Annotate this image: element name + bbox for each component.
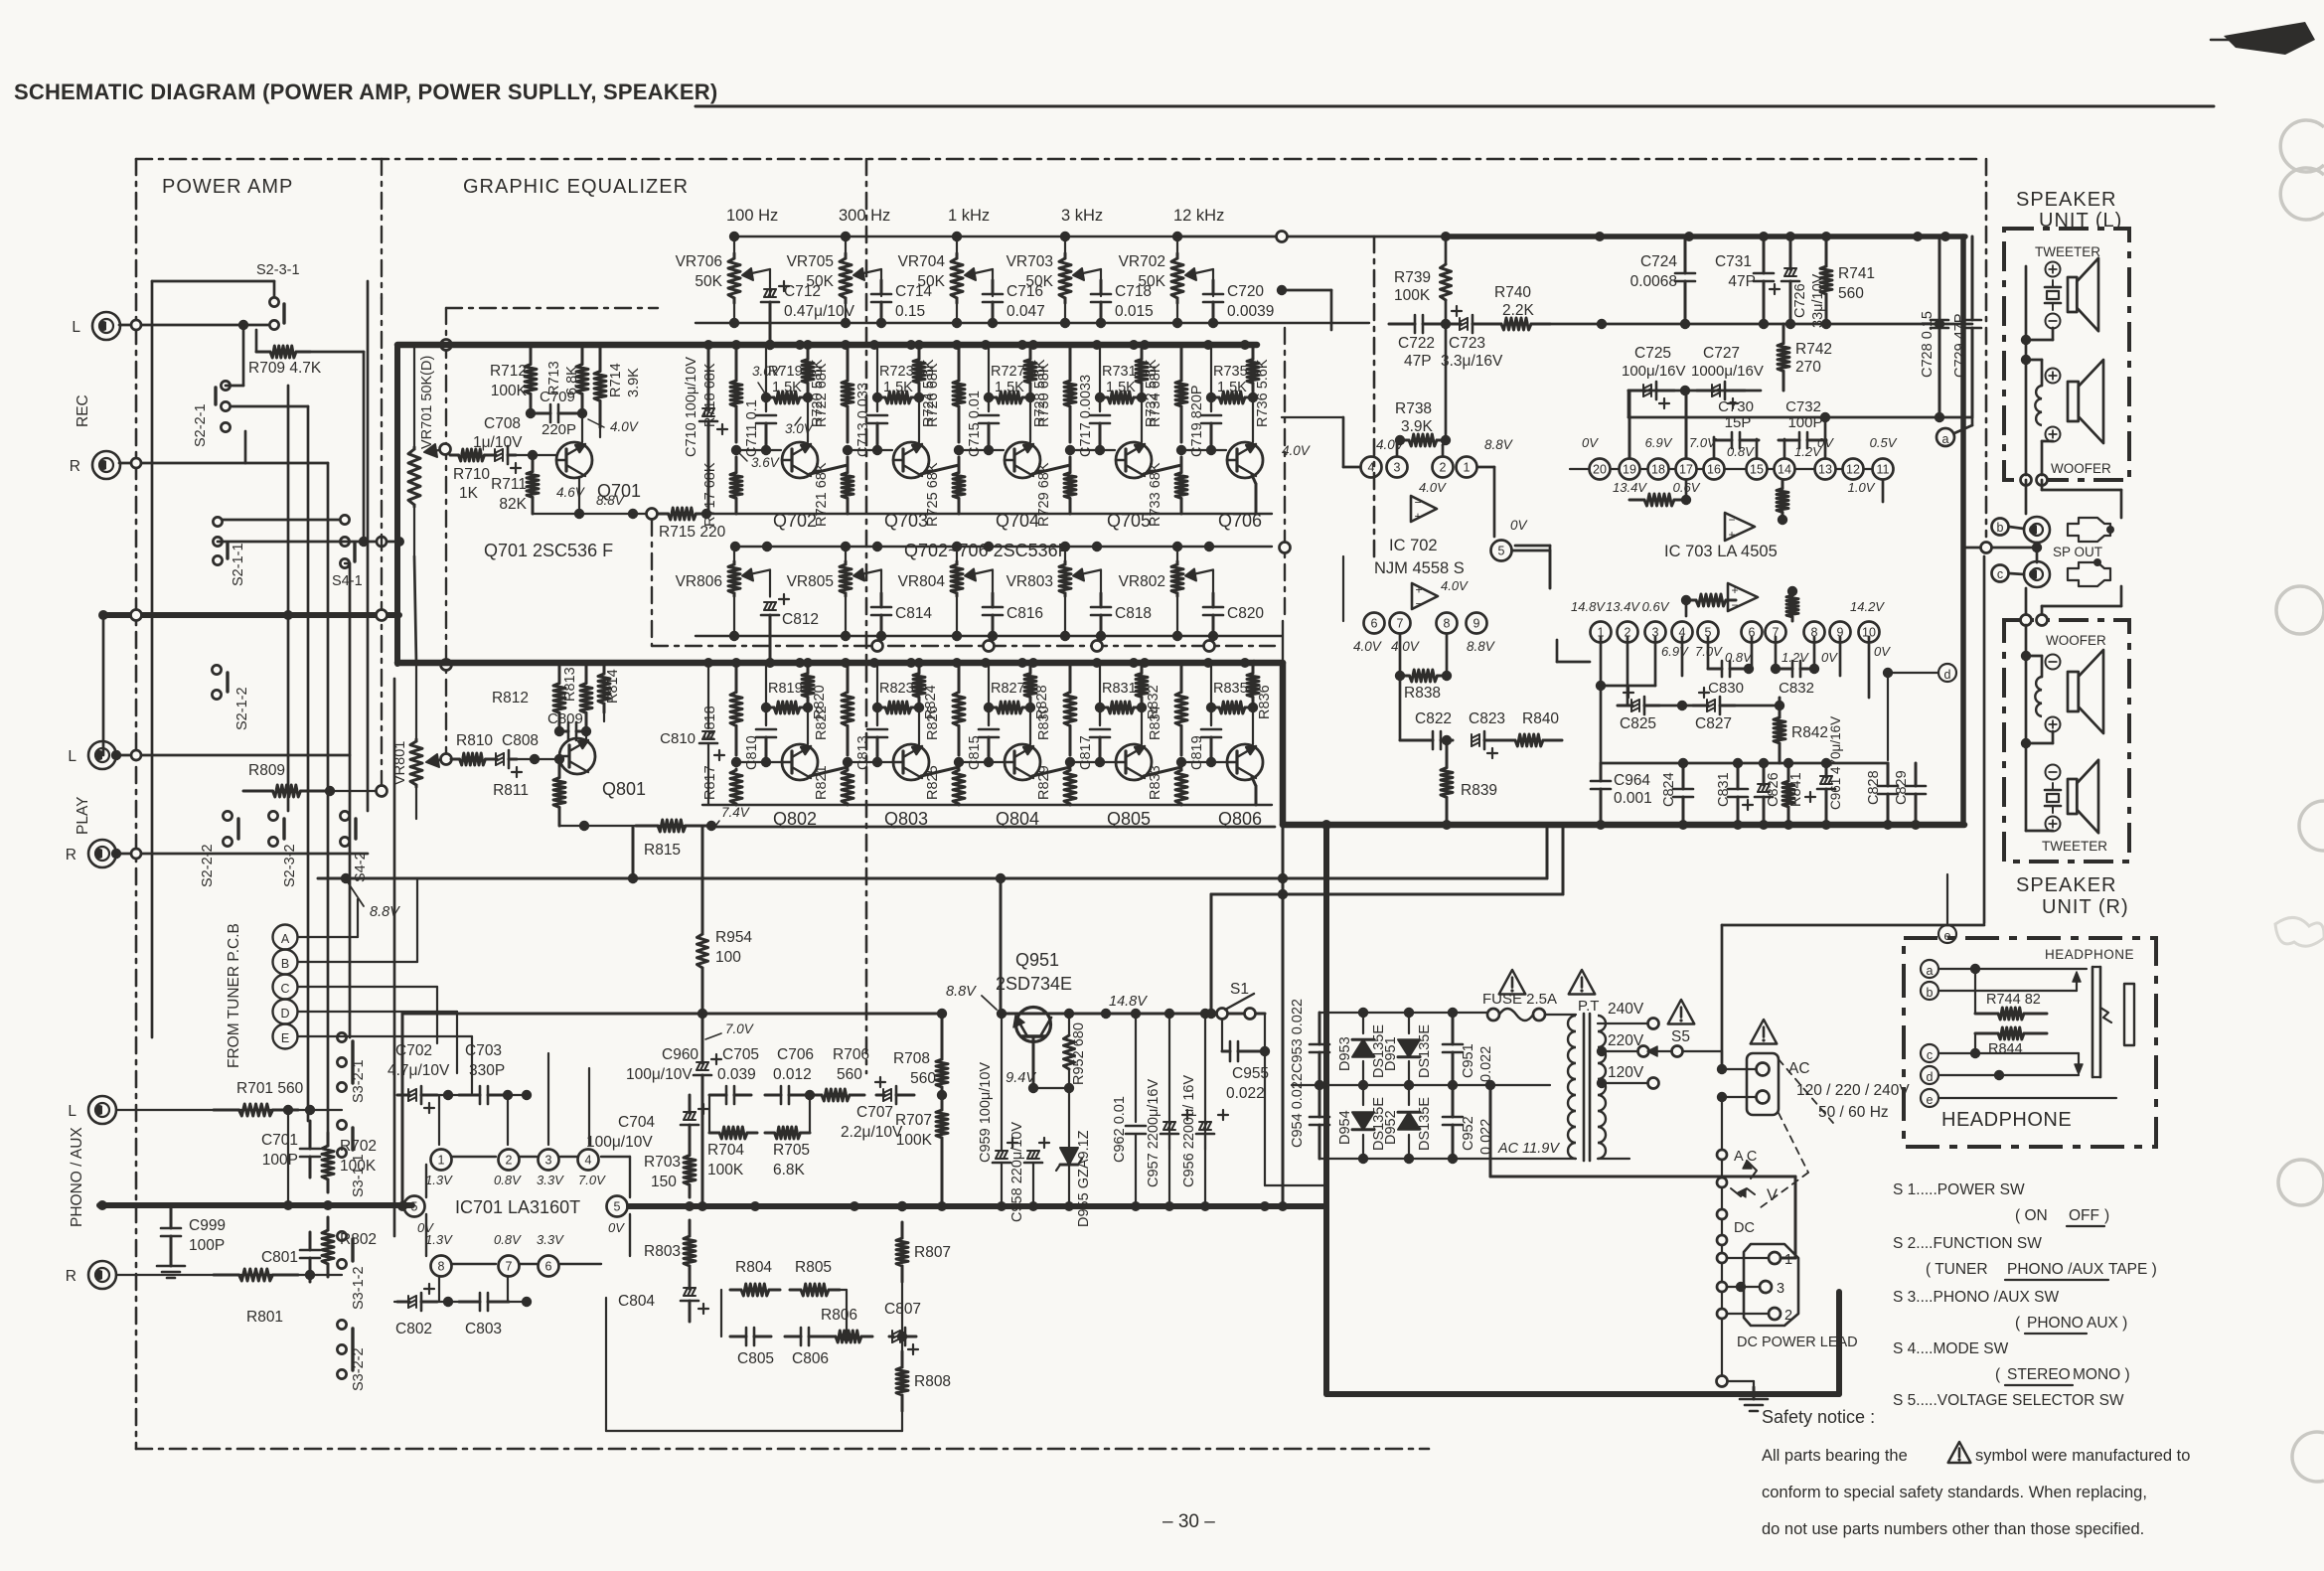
svg-text:R705: R705 xyxy=(773,1142,810,1159)
IC701 body wires xyxy=(426,1157,630,1264)
label PHONO/AUX xyxy=(69,1127,85,1227)
wire Q801 collector xyxy=(585,731,587,740)
wire C702 C703 node xyxy=(437,1090,459,1145)
label S1 list xyxy=(1893,1181,2025,1198)
switch S2-3-2 xyxy=(268,811,298,887)
wire cap node xyxy=(988,397,990,411)
node base Q805 xyxy=(1065,757,1075,767)
svg-text:7: 7 xyxy=(506,1260,513,1274)
svg-text:1.5K: 1.5K xyxy=(772,380,802,395)
svg-text:C817: C817 xyxy=(1078,735,1094,770)
svg-text:R825: R825 xyxy=(925,765,941,800)
capacitor C958 xyxy=(1009,1122,1049,1222)
wire 1290 c xyxy=(1282,621,1284,663)
wire plug b loop xyxy=(2042,480,2121,518)
svg-text:0.022: 0.022 xyxy=(1478,1119,1494,1155)
svg-text:2SD734E: 2SD734E xyxy=(996,974,1072,994)
diode D953 xyxy=(1337,1013,1387,1085)
node d xyxy=(1883,664,1956,760)
wire pin8 down xyxy=(1446,634,1449,676)
capacitor C816 xyxy=(983,593,1043,641)
potentiometer VR804 xyxy=(898,547,993,636)
svg-text:2.2K: 2.2K xyxy=(1502,302,1535,319)
wire s5 out xyxy=(1683,1051,1722,1069)
wire thick up right xyxy=(0,0,1,1)
wire pin8 down IC703 xyxy=(1813,637,1816,669)
speaker R box xyxy=(2004,620,2129,862)
wire mesh v1 xyxy=(0,0,1,1)
IC702 pin 2 xyxy=(1433,457,1454,478)
svg-text:Q802: Q802 xyxy=(773,809,817,829)
wire base Q704 xyxy=(959,445,1004,455)
resistor R815 xyxy=(636,820,707,859)
capacitor C829 xyxy=(1894,763,1926,825)
svg-text:(: ( xyxy=(2015,1315,2021,1332)
wire pin5 ic702 right xyxy=(1515,546,1550,588)
op-amp U702b xyxy=(1412,583,1438,611)
svg-text:C707: C707 xyxy=(856,1104,893,1121)
op-amp U703b xyxy=(1728,583,1758,612)
svg-text:b: b xyxy=(1927,986,1934,1000)
svg-text:R810: R810 xyxy=(456,732,493,749)
wire pin1 right xyxy=(1477,467,1494,537)
wire R814 out xyxy=(603,712,605,721)
svg-text:C722: C722 xyxy=(1398,335,1435,352)
wire fuse to pt xyxy=(1545,1014,1576,1016)
svg-text:14.8V: 14.8V xyxy=(1109,994,1148,1010)
svg-text:5: 5 xyxy=(411,1200,418,1214)
svg-text:4.0V: 4.0V xyxy=(1441,578,1469,593)
svg-text:R714: R714 xyxy=(608,363,624,397)
svg-text:300 Hz: 300 Hz xyxy=(839,207,890,225)
svg-text:C809: C809 xyxy=(547,710,583,727)
label 4.0V amp2 xyxy=(1441,578,1469,593)
warn ac xyxy=(1751,1020,1778,1044)
punch hole 6 xyxy=(2292,1432,2324,1482)
punch hole 4 xyxy=(2299,801,2324,851)
wire base Q706 xyxy=(1181,445,1226,455)
thick bus PLAY xyxy=(98,610,399,621)
jack L REC xyxy=(72,312,120,340)
capacitor C716 xyxy=(983,280,1045,328)
zener D955 xyxy=(1056,1088,1092,1227)
wire ic702 output right xyxy=(0,0,1,1)
wire mesh 908 xyxy=(1206,828,1563,1019)
svg-text:R704: R704 xyxy=(707,1142,744,1159)
svg-text:REC: REC xyxy=(75,394,91,427)
svg-text:C805: C805 xyxy=(737,1350,774,1367)
resistor R826 lower divider upper xyxy=(925,663,965,755)
wire REC L vertical xyxy=(242,325,245,386)
wire x330 vertical xyxy=(245,463,328,1133)
capacitor C964 xyxy=(1591,763,1652,825)
svg-text:R727: R727 xyxy=(991,364,1025,380)
hp jack sleeve xyxy=(2124,984,2134,1045)
svg-text:C704: C704 xyxy=(618,1114,655,1131)
svg-text:47P: 47P xyxy=(1404,353,1432,370)
wire cap node xyxy=(876,397,878,411)
resistor R818 lower divider upper xyxy=(702,663,742,755)
svg-text:240V: 240V xyxy=(1608,1001,1644,1018)
node b xyxy=(1992,519,2009,536)
node b hp xyxy=(1921,982,1938,1000)
wire R714 out xyxy=(599,427,601,437)
headphone box xyxy=(1904,938,2156,1147)
capacitor C827 xyxy=(1693,688,1735,732)
resistor R825 lower divider lower xyxy=(925,765,965,805)
capacitor C722 xyxy=(1389,315,1441,370)
wire ic702 eq link xyxy=(1277,285,1331,330)
label TWEETER R xyxy=(2042,839,2107,854)
svg-text:R708: R708 xyxy=(893,1050,930,1067)
svg-text:R701 560: R701 560 xyxy=(236,1080,304,1097)
speaker L terminals xyxy=(2021,475,2048,486)
capacitor C818 xyxy=(1091,593,1152,641)
label IC702 xyxy=(1389,537,1438,554)
IC703 pin 14 xyxy=(1775,459,1795,480)
tweeter L speaker xyxy=(2068,258,2098,331)
plug dash 2 xyxy=(1757,1113,1808,1210)
wire long mid link xyxy=(0,0,1,1)
node base Q803 xyxy=(843,757,852,767)
resistor R733 divider lower xyxy=(1148,457,1187,527)
svg-text:S 5.....VOLTAGE SELECTOR SW: S 5.....VOLTAGE SELECTOR SW xyxy=(1893,1392,2124,1409)
resistor R720 xyxy=(802,345,826,427)
node c hp xyxy=(1921,1044,1938,1062)
svg-text:GRAPHIC EQUALIZER: GRAPHIC EQUALIZER xyxy=(463,176,689,198)
transistor Q705 xyxy=(1107,442,1152,531)
diode D954 xyxy=(1337,1085,1387,1159)
resistor R812 xyxy=(492,665,565,736)
label 4.0V pin3 xyxy=(1376,437,1406,452)
resistor R811 xyxy=(493,754,565,826)
terminal E xyxy=(273,1024,298,1049)
resistor R729 divider lower xyxy=(1036,457,1076,527)
woofer R minus xyxy=(2046,655,2061,670)
transistor Q702 xyxy=(773,442,818,531)
resistor R704 xyxy=(707,1127,757,1178)
svg-text:C708: C708 xyxy=(484,415,521,432)
svg-text:b: b xyxy=(1997,521,2004,535)
svg-text:P.T: P.T xyxy=(1578,998,1599,1015)
svg-text:S3-1-2: S3-1-2 xyxy=(351,1266,367,1310)
svg-text:VR706: VR706 xyxy=(676,253,722,270)
svg-text:C953 0.022: C953 0.022 xyxy=(1290,999,1306,1073)
resistor R718 divider upper xyxy=(702,345,742,442)
EQ bottom rail 2 xyxy=(730,542,1272,551)
resistor R726 divider upper xyxy=(925,345,965,442)
svg-text:7.0V: 7.0V xyxy=(725,1021,755,1036)
wire ic702 pin9 net xyxy=(1557,640,1590,662)
svg-text:R706: R706 xyxy=(833,1046,869,1063)
svg-text:IC 703 LA 4505: IC 703 LA 4505 xyxy=(1664,543,1778,560)
wire lower loop xyxy=(721,1290,852,1341)
svg-text:R726 68K: R726 68K xyxy=(925,363,941,427)
resistor R841 xyxy=(1782,763,1804,825)
svg-text:R829: R829 xyxy=(1036,765,1052,800)
svg-text:2: 2 xyxy=(1440,461,1447,475)
wire C808 base xyxy=(517,754,559,764)
svg-text:conform to special safety: conform to special safety standards. Whe… xyxy=(1762,1484,2147,1501)
svg-text:C806: C806 xyxy=(792,1350,829,1367)
svg-text:18: 18 xyxy=(1651,463,1665,477)
EQ lower top rail xyxy=(0,0,1,1)
svg-text:C802: C802 xyxy=(395,1321,432,1337)
label FROM TUNER P.C.B xyxy=(226,923,242,1068)
capacitor C714 xyxy=(871,280,932,328)
op-amp U703a xyxy=(1725,513,1755,542)
svg-text:0.012: 0.012 xyxy=(773,1066,812,1083)
node d hp xyxy=(1921,1066,1938,1084)
wire x460 tuner D vert xyxy=(456,1012,458,1073)
svg-text:VR701 50K(D): VR701 50K(D) xyxy=(419,356,435,449)
svg-text:C962 0.01: C962 0.01 xyxy=(1112,1096,1128,1163)
IC702 pin 1 xyxy=(1457,457,1477,478)
jack L PHONO xyxy=(68,1096,116,1124)
capacitor C724 xyxy=(1630,236,1695,324)
svg-text:R819: R819 xyxy=(768,681,803,697)
headphone feed wire xyxy=(1722,556,1984,1069)
svg-text:R952 680: R952 680 xyxy=(1071,1022,1087,1085)
svg-text:100 Hz: 100 Hz xyxy=(726,207,778,225)
IC703 pin 20 xyxy=(1590,459,1611,480)
svg-text:R: R xyxy=(66,847,77,864)
svg-text:C803: C803 xyxy=(465,1321,502,1337)
resistor R813 xyxy=(562,665,592,736)
svg-text:50K: 50K xyxy=(806,273,834,290)
wire gnd drop xyxy=(1717,1376,1755,1388)
svg-text:560: 560 xyxy=(837,1066,862,1083)
wire emitter link Q706 xyxy=(1252,475,1256,514)
wire IC702 x1455 down xyxy=(1441,324,1451,445)
resistor R740 xyxy=(1482,284,1550,330)
tap 120V xyxy=(1597,1078,1659,1089)
wire mesh v2 xyxy=(1278,663,1288,1211)
wire mesh 962 xyxy=(0,0,1,1)
resistor R721 divider lower xyxy=(814,457,853,527)
label S3 list xyxy=(1893,1289,2059,1306)
IC703 pin 17 xyxy=(1676,459,1697,480)
wire base Q805 xyxy=(1070,757,1115,767)
svg-text:50K: 50K xyxy=(917,273,945,290)
svg-text:C710 100μ/10V: C710 100μ/10V xyxy=(684,357,699,457)
capacitor C708 xyxy=(473,415,523,473)
wire pin4 left xyxy=(1343,417,1360,467)
wire ac return xyxy=(1485,1080,1795,1258)
svg-text:R739: R739 xyxy=(1394,269,1431,286)
dashdot select line x449 xyxy=(441,308,452,765)
svg-text:TWEETER: TWEETER xyxy=(2035,244,2100,259)
pot VR801 xyxy=(392,556,422,819)
svg-text:50K: 50K xyxy=(1025,273,1053,290)
warn s5 xyxy=(1668,1000,1695,1024)
svg-text:( TUNER: ( TUNER xyxy=(1926,1261,1988,1278)
label V arrow xyxy=(1717,1178,1778,1204)
resistor R952 xyxy=(1064,1014,1088,1088)
svg-text:DS135E: DS135E xyxy=(1417,1097,1433,1151)
svg-text:C951: C951 xyxy=(1461,1043,1476,1078)
woofer L plus xyxy=(2046,369,2061,384)
capacitor C804 xyxy=(618,1282,708,1322)
svg-text:C823: C823 xyxy=(1469,710,1505,727)
wire cap node xyxy=(1210,397,1212,411)
svg-text:R803: R803 xyxy=(644,1243,681,1260)
wire C815 link xyxy=(988,707,990,725)
wire R844 tail xyxy=(0,0,1,1)
wire tuner E xyxy=(298,1035,472,1037)
capacitor C809 xyxy=(547,710,586,740)
wire R839 bottom xyxy=(1446,823,1449,825)
capacitor C831 xyxy=(1716,763,1748,825)
crossover cap R xyxy=(2045,783,2061,813)
label 3.6V xyxy=(739,453,781,470)
resistor R711 xyxy=(491,455,539,514)
svg-text:3.3μ/16V: 3.3μ/16V xyxy=(1441,353,1503,370)
svg-text:R838: R838 xyxy=(1404,685,1441,702)
svg-text:8.8V: 8.8V xyxy=(1467,639,1496,654)
svg-text:C815: C815 xyxy=(967,735,983,770)
label HEADPHONE top xyxy=(2045,947,2134,962)
wire ic702 to eq lower xyxy=(1342,556,1344,621)
wire b link xyxy=(2009,527,2024,529)
woofer L minus xyxy=(2046,427,2061,442)
svg-text:C810: C810 xyxy=(660,730,696,747)
svg-text:3.9K: 3.9K xyxy=(1401,418,1434,435)
main frame right xyxy=(1985,159,1988,537)
wire R707 down xyxy=(941,1153,944,1206)
svg-text:100P: 100P xyxy=(262,1152,298,1169)
wire R807 C807 node xyxy=(897,1282,907,1351)
svg-text:c: c xyxy=(1927,1048,1933,1062)
svg-text:DS135E: DS135E xyxy=(1417,1024,1433,1078)
svg-text:100K: 100K xyxy=(707,1162,744,1178)
transistor Q804 xyxy=(996,744,1040,829)
resistor R824 lower xyxy=(913,663,939,719)
label PT xyxy=(1578,998,1599,1015)
capacitor C961 xyxy=(1805,716,1843,825)
resistor R731 feedback xyxy=(1095,364,1147,403)
svg-text:V: V xyxy=(1767,1186,1778,1204)
safety notice warn xyxy=(1948,1442,1971,1463)
svg-text:−: − xyxy=(1414,496,1421,510)
resistor R808 xyxy=(896,1351,951,1411)
capacitor C952 xyxy=(1443,1085,1494,1159)
wire c link xyxy=(2009,573,2024,574)
svg-text:R840: R840 xyxy=(1522,710,1559,727)
power amp / equalizer divider xyxy=(865,159,868,1073)
svg-text:VR804: VR804 xyxy=(898,573,946,590)
bridge top rail xyxy=(1319,1008,1490,1018)
svg-text:SPEAKER: SPEAKER xyxy=(2016,874,2116,896)
svg-text:L: L xyxy=(68,1103,77,1120)
svg-text:5: 5 xyxy=(1498,545,1505,558)
resistor R742 xyxy=(1778,324,1832,391)
capacitor C812 xyxy=(761,594,819,668)
resistor R724 xyxy=(913,345,937,427)
capacitor C713 xyxy=(855,345,887,457)
switch S2-1-2 xyxy=(212,665,250,730)
tweeter R speaker xyxy=(2068,760,2098,833)
svg-text:D954: D954 xyxy=(1337,1110,1353,1145)
label IC701 xyxy=(455,1197,580,1217)
svg-text:0.15: 0.15 xyxy=(895,303,925,320)
resistor R707 xyxy=(895,1095,948,1153)
svg-text:R718 68K: R718 68K xyxy=(702,363,718,427)
scan mark top right xyxy=(2211,22,2315,55)
speaker R terminals xyxy=(2021,615,2048,626)
AC plug xyxy=(1747,1053,1779,1115)
label HEADPHONE bottom xyxy=(1941,1109,2072,1131)
capacitor C824 xyxy=(1661,763,1693,825)
svg-text:d: d xyxy=(1927,1070,1934,1084)
label 8.8V pin9 xyxy=(1467,639,1496,654)
thick output bus xyxy=(1283,758,1964,830)
svg-text:R722 68K: R722 68K xyxy=(814,363,830,427)
svg-text:– 30 –: – 30 – xyxy=(1162,1511,1215,1532)
capacitor C732 xyxy=(1779,398,1826,448)
label 8.8V left xyxy=(348,882,400,920)
wire ic703 pin4 stub xyxy=(1681,637,1684,676)
label 7.4V xyxy=(713,805,751,829)
node base Q702 xyxy=(731,445,741,455)
resistor fb U703a xyxy=(1629,481,1691,506)
label WOOFER R xyxy=(2046,633,2106,648)
capacitor C807 xyxy=(884,1301,921,1354)
wire emitter link Q702 xyxy=(810,465,848,474)
svg-text:C810: C810 xyxy=(744,735,760,770)
fuse F1 xyxy=(1487,1009,1545,1021)
arrow VR801 xyxy=(426,754,452,768)
wire ic703 pin9 out xyxy=(1839,637,1842,676)
svg-text:PHONO /AUX: PHONO /AUX xyxy=(2007,1261,2104,1278)
wire x352 vertical xyxy=(345,563,350,1037)
wire tuner C xyxy=(298,986,437,988)
svg-text:FUSE 2.5A: FUSE 2.5A xyxy=(1482,991,1557,1008)
svg-text:R801: R801 xyxy=(246,1309,283,1326)
svg-text:SPEAKER: SPEAKER xyxy=(2016,189,2116,211)
svg-text:R721 68K: R721 68K xyxy=(814,462,830,527)
diode D952 xyxy=(1383,1085,1433,1159)
wire spk R int xyxy=(2021,625,2053,831)
wire collector Q702 xyxy=(807,397,809,442)
wire pin3 up xyxy=(1396,440,1399,456)
wire C827 R842 xyxy=(1735,701,1784,710)
svg-text:S 2....FUNCTION SW: S 2....FUNCTION SW xyxy=(1893,1235,2042,1252)
wire base Q802 xyxy=(736,757,781,767)
wire hp c xyxy=(1938,1048,2079,1058)
capacitor C720 xyxy=(1203,280,1274,328)
svg-text:Q803: Q803 xyxy=(884,809,928,829)
switch S4-1 xyxy=(332,515,363,589)
svg-text:R717 68K: R717 68K xyxy=(702,462,718,527)
resistor R713 xyxy=(546,345,588,418)
svg-text:330P: 330P xyxy=(469,1062,505,1079)
resistor R719 feedback xyxy=(761,364,813,403)
svg-text:6.9V: 6.9V xyxy=(1645,435,1673,450)
resistor R723 feedback xyxy=(872,364,924,403)
svg-text:R730 68K: R730 68K xyxy=(1036,363,1052,427)
IC702 pin 4 xyxy=(1361,457,1382,478)
wire C817 link xyxy=(1099,707,1101,725)
wire sp out feed xyxy=(1963,543,2042,563)
svg-text:C816: C816 xyxy=(1007,605,1043,622)
svg-text:1.5K: 1.5K xyxy=(883,380,913,395)
svg-text:12 kHz: 12 kHz xyxy=(1173,207,1224,225)
svg-text:50K: 50K xyxy=(695,273,722,290)
resistor R809 xyxy=(243,762,382,797)
svg-text:1.5K: 1.5K xyxy=(1217,380,1247,395)
svg-text:R: R xyxy=(70,458,80,475)
